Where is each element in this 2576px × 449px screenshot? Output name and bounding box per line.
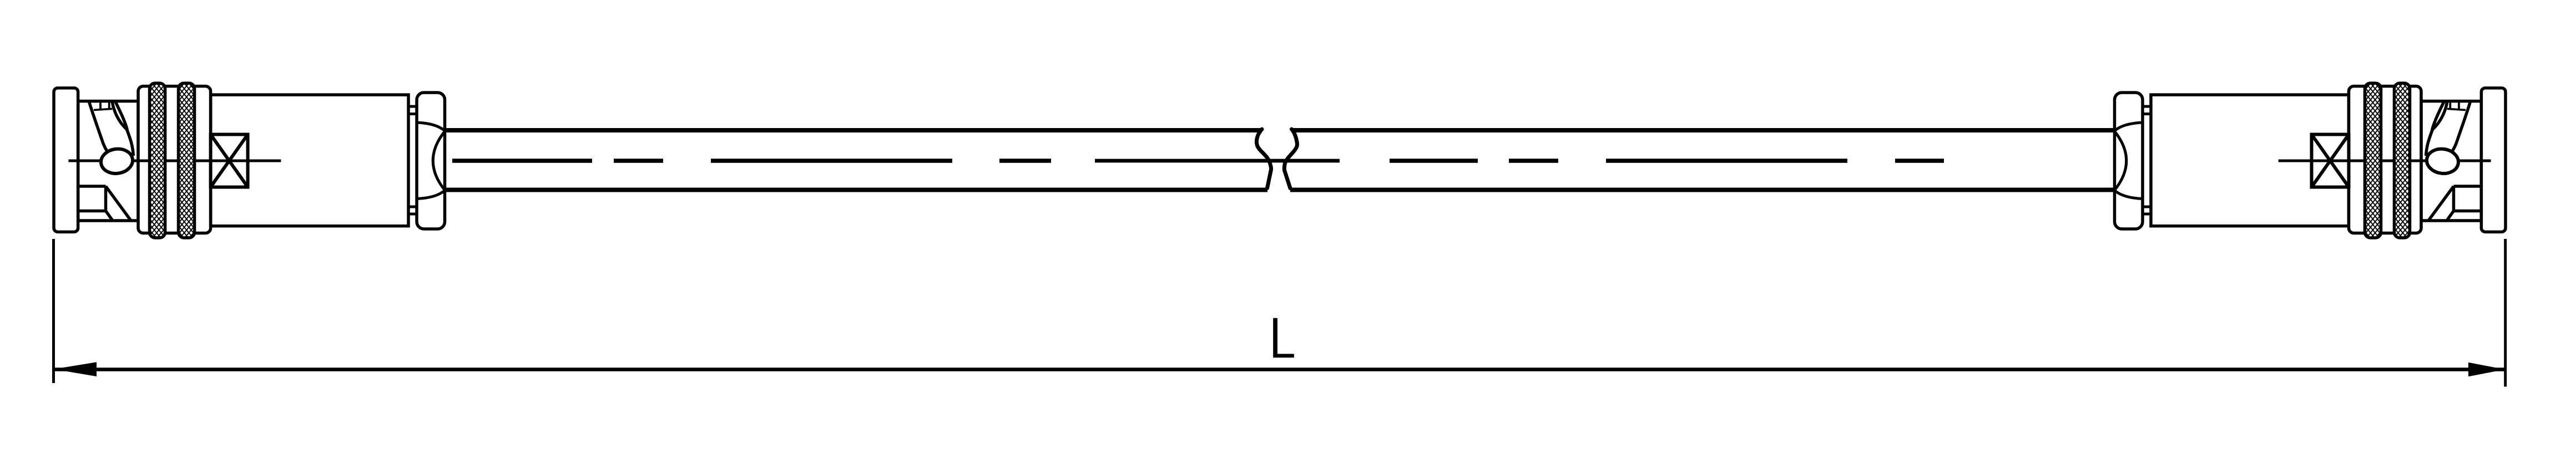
label L xyxy=(1273,318,1294,358)
cable chain dash crossing the break xyxy=(1095,159,1340,163)
cable right segment bottom line xyxy=(1290,188,2115,192)
cable break line left xyxy=(1256,129,1271,188)
cable right segment top line xyxy=(1291,128,2115,132)
cable break line right xyxy=(1284,129,1297,188)
dimension arrowhead right xyxy=(2468,363,2505,376)
cable left segment bottom line xyxy=(445,188,1268,192)
dimension line L xyxy=(54,368,2506,371)
dimension arrowhead left xyxy=(54,362,97,376)
cable chain center line dashes xyxy=(452,159,1944,163)
cable left segment top line xyxy=(445,128,1262,132)
dimension extension line right xyxy=(2504,239,2507,387)
dimension extension line left xyxy=(52,239,55,383)
